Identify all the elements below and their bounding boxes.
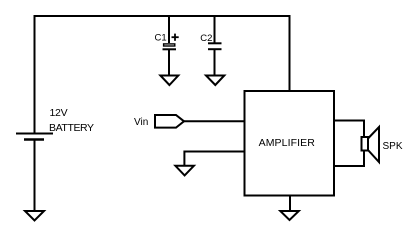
capacitor C2 bottom plate: [208, 48, 222, 50]
svg-text:C2: C2: [200, 33, 212, 44]
wire speaker top: [334, 121, 364, 167]
wire Vin to amplifier: [184, 120, 245, 122]
svg-text:Vin: Vin: [134, 117, 148, 128]
op-amp U1 amplifier block: [245, 91, 335, 196]
speaker SPK cone: [368, 127, 379, 162]
wire C1 top: [168, 16, 170, 43]
battery B1 short plate (-): [24, 138, 44, 141]
Vin input tag: [155, 115, 184, 128]
ground amplifier: [280, 211, 299, 220]
svg-text:SPK: SPK: [383, 141, 403, 152]
wire C2 bottom: [214, 49, 216, 75]
capacitor C2 top plate: [208, 42, 222, 44]
ground input: [175, 166, 194, 176]
wire battery negative to ground: [34, 140, 36, 212]
wire C1 bottom: [168, 49, 170, 75]
ground C2: [206, 76, 224, 86]
svg-text:BATTERY: BATTERY: [49, 122, 94, 134]
capacitor C1 negative plate: [163, 48, 177, 50]
wire amplifier V+ drop: [289, 16, 291, 91]
speaker SPK body: [362, 137, 369, 151]
svg-text:AMPLIFIER: AMPLIFIER: [259, 137, 316, 149]
wire amplifier inverting input: [184, 152, 244, 166]
wire amplifier ground: [289, 196, 291, 212]
svg-text:C1: C1: [155, 33, 167, 44]
wire C2 top: [214, 16, 216, 43]
label C1 plus polarity: [172, 34, 179, 41]
capacitor C1 positive plate box: [164, 44, 175, 46]
wire battery positive vertical: [34, 16, 36, 134]
battery B1 long plate (+): [16, 133, 53, 135]
svg-text:12V: 12V: [50, 107, 68, 119]
ground C1: [160, 76, 178, 86]
wire top supply rail: [34, 15, 291, 17]
ground battery: [25, 211, 44, 221]
